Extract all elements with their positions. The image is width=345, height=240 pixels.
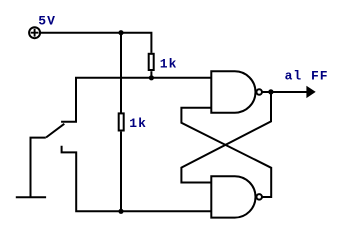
svg-text:1k: 1k [129,116,147,131]
svg-text:al FF: al FF [285,68,329,83]
svg-text:1k: 1k [160,56,178,71]
svg-text:5V: 5V [38,13,56,28]
